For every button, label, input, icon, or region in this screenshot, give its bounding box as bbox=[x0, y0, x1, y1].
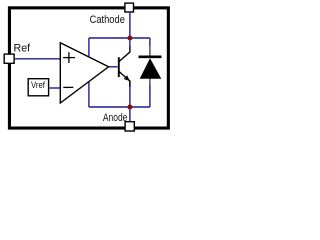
svg-text:Vref: Vref bbox=[31, 79, 45, 90]
svg-text:Cathode: Cathode bbox=[90, 14, 126, 26]
svg-text:Anode: Anode bbox=[103, 112, 128, 124]
svg-text:Ref: Ref bbox=[14, 43, 32, 55]
